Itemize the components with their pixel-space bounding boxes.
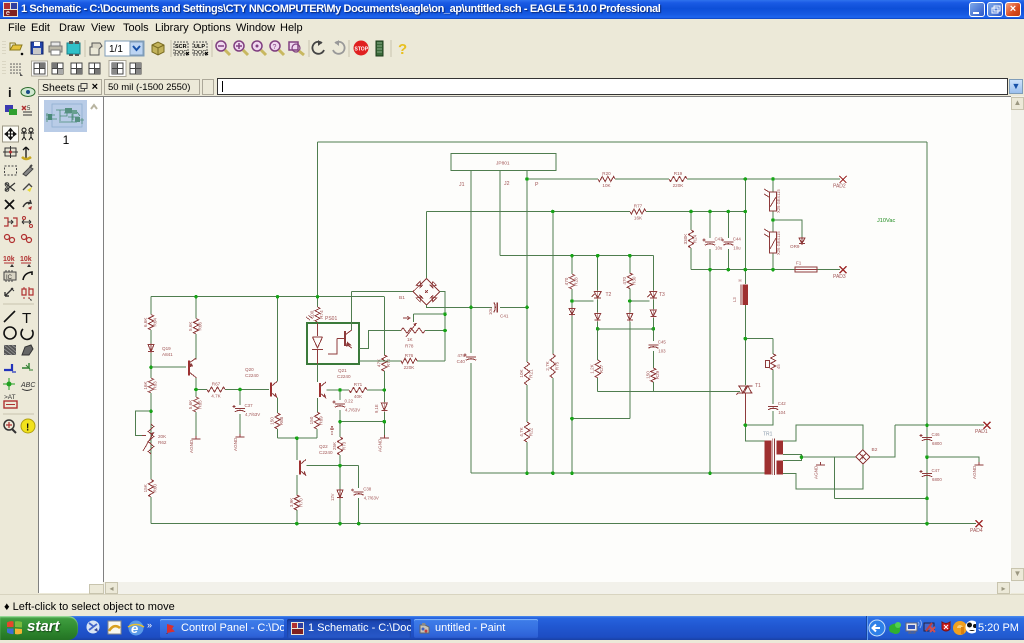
wire TR1 center tap a: [783, 454, 802, 460]
wire x316 drop: [317, 297, 319, 307]
wire y210 rail right: [646, 211, 745, 213]
junction at 727.3,268.6: [727, 268, 731, 272]
thyristor T3: [647, 291, 657, 300]
wire x339 col a: [339, 390, 341, 400]
svg-text:JP801: JP801: [496, 161, 510, 167]
capacitor C47: [920, 468, 943, 482]
junction at 709,210.5: [708, 210, 712, 214]
svg-text:i: i: [8, 85, 12, 100]
label R25 pack: [766, 361, 782, 370]
vertical scrollbar: [1011, 96, 1024, 593]
junction at 195,388.5: [194, 388, 198, 392]
wire T1 gate rail: [598, 391, 740, 393]
wire bridge top feed: [426, 212, 428, 279]
wire C44 column lower: [727, 249, 729, 270]
opto-triac U2: [764, 189, 781, 213]
wire snubber mid: [772, 370, 774, 404]
wire y360 to R76: [417, 360, 445, 362]
svg-text:IC: IC: [6, 275, 13, 281]
svg-text:R28: R28: [574, 277, 579, 286]
svg-text:C2240: C2240: [245, 373, 259, 378]
junction at 772,219: [771, 218, 775, 222]
svg-text:PAD1: PAD1: [975, 429, 988, 435]
capacitor C45: [648, 340, 666, 354]
svg-text:C2240: C2240: [319, 450, 333, 455]
wire x596 col d: [597, 378, 599, 392]
resistor R67: [207, 382, 225, 399]
wire Q22 collector line: [307, 465, 359, 467]
wire bus bridge to C41: [426, 305, 492, 307]
junction at 690,210.5: [689, 210, 693, 214]
wire C43 column upper: [709, 212, 711, 239]
LED inside optocoupler: [312, 323, 323, 364]
capacitor C44: [721, 237, 742, 251]
junction at 551.8,210.5: [551, 210, 555, 214]
svg-text:5.6K: 5.6K: [188, 399, 193, 409]
wire wiper stub: [413, 314, 415, 322]
svg-text:10K: 10K: [519, 368, 524, 377]
svg-text:4,7/63V: 4,7/63V: [245, 412, 260, 417]
wire R20 to R19: [615, 178, 669, 180]
svg-text:R74: R74: [319, 310, 324, 319]
junction at 772,178: [771, 177, 775, 181]
svg-text:Q20: Q20: [245, 367, 254, 372]
wire snubber bottom: [745, 411, 773, 425]
svg-text:4.7K: 4.7K: [211, 394, 221, 399]
pad PAD1: [975, 422, 991, 435]
ground AGND q19: [189, 436, 201, 453]
wire P to R20: [527, 178, 598, 180]
wire x150 b: [150, 330, 152, 344]
left tool palette: [0, 78, 37, 594]
junction at 195,295.7: [194, 295, 198, 299]
optocoupler PS2501 box: [307, 323, 359, 364]
wire Q20 collector up: [277, 297, 279, 382]
junction at 339,389: [338, 388, 342, 392]
svg-text:12V: 12V: [330, 493, 335, 501]
wire left vertical of loop: [317, 142, 319, 297]
svg-text:10u: 10u: [488, 307, 493, 315]
svg-text:6800: 6800: [932, 477, 942, 482]
svg-text:>AT: >AT: [4, 394, 16, 401]
wire opto collector up: [351, 292, 353, 330]
svg-text:C41: C41: [500, 313, 509, 318]
svg-text:R29: R29: [655, 370, 660, 379]
junction at 470,306.3: [469, 306, 473, 310]
capacitor C43: [703, 237, 724, 251]
svg-text:R71: R71: [354, 382, 363, 387]
junction at 709,268.6: [708, 268, 712, 272]
wire R21 col a: [526, 307, 528, 362]
svg-text:R65: R65: [198, 400, 203, 409]
svg-text:C40: C40: [457, 359, 466, 364]
junction at 709,472.2: [708, 471, 712, 475]
ground AGND c37: [233, 434, 245, 451]
svg-text:T: T: [22, 310, 31, 327]
diode OR9: [799, 237, 805, 245]
svg-text:R73: R73: [342, 441, 347, 450]
horizontal scrollbar: [104, 582, 1011, 594]
wire x383 down a: [383, 297, 385, 355]
svg-text:Q19: Q19: [162, 346, 171, 351]
transistor Q21: [320, 382, 326, 398]
resistor R68: [270, 413, 285, 429]
svg-text:10k: 10k: [20, 256, 32, 263]
svg-text:Q21: Q21: [338, 368, 347, 373]
wire x383 down d: [383, 412, 385, 435]
wire C37 to gnd: [239, 414, 241, 434]
wire snubber top: [745, 338, 773, 340]
resistor R70: [289, 495, 304, 510]
svg-text:A841: A841: [162, 352, 173, 357]
wire x833 drop: [834, 457, 836, 498]
junction at 727.3,210.5: [727, 210, 731, 214]
svg-text:C47: C47: [932, 468, 941, 473]
resistor R60: [143, 480, 158, 498]
svg-text:AGND: AGND: [814, 465, 819, 479]
resistor R20: [598, 171, 615, 188]
svg-text:TR1: TR1: [763, 432, 773, 438]
svg-text:R22: R22: [529, 427, 534, 436]
svg-text:220K: 220K: [404, 365, 416, 370]
wire T1 down: [744, 393, 746, 425]
wire x744 vertical from pad rail: [744, 179, 746, 284]
junction at 628.8,300: [628, 299, 632, 303]
wire x571 col a: [571, 256, 573, 274]
svg-text:330K: 330K: [683, 233, 688, 245]
svg-text:5.6K: 5.6K: [188, 321, 193, 331]
wire x571 col c: [571, 316, 573, 419]
svg-text:C37: C37: [245, 403, 254, 408]
svg-text:3.9K: 3.9K: [289, 497, 294, 507]
resistor R21: [519, 362, 534, 385]
wire x628 col a: [629, 256, 631, 273]
svg-text:X25 GE4115: X25 GE4115: [776, 189, 781, 213]
junction at 772,268.6: [771, 268, 775, 272]
svg-text:4,7/63V: 4,7/63V: [345, 408, 360, 413]
wire x383 down c: [383, 390, 385, 402]
svg-text:B2: B2: [872, 447, 878, 453]
wire y417 link: [572, 418, 630, 420]
wire B2 right out: [870, 425, 895, 457]
svg-text:L3: L3: [732, 297, 737, 302]
canvas with schematic: [103, 96, 1011, 582]
wire Q21 base right a: [327, 389, 350, 391]
svg-text:15K: 15K: [143, 483, 148, 492]
wire x150 d: [150, 393, 152, 480]
junction at 526,472.2: [525, 471, 529, 475]
wire Q21 emitter down: [317, 398, 319, 412]
wire y388 base line a: [196, 389, 207, 391]
svg-text:e: e: [6, 10, 10, 17]
title bar: [0, 0, 1024, 19]
wire x339 col e: [339, 499, 341, 524]
svg-text:R30: R30: [631, 276, 636, 285]
svg-text:AGND: AGND: [233, 437, 238, 451]
wire agnd branch right: [927, 457, 979, 462]
ground AGND right: [972, 462, 984, 479]
wire x571 lower: [571, 419, 573, 474]
svg-text:Q22: Q22: [319, 444, 328, 449]
wire optotriac column top: [772, 179, 774, 192]
taskbar: [0, 616, 1024, 640]
svg-text:R78: R78: [405, 344, 414, 349]
svg-text:150: 150: [309, 416, 314, 424]
wire bottom bus: [151, 523, 976, 525]
pad PAD3: [833, 266, 847, 280]
junction at 383.3,420.7: [383, 420, 387, 424]
svg-text:10u: 10u: [733, 246, 741, 251]
wire R68 to rail: [277, 429, 279, 438]
junction at 526,178: [525, 177, 529, 181]
diode D21: [569, 308, 575, 317]
wire y437 rail: [278, 437, 317, 439]
menu bar: [0, 19, 1024, 37]
diode D22: [595, 313, 601, 322]
resistor R25: [771, 354, 776, 370]
wire x628 col c: [629, 322, 631, 419]
wire optotriac column mid: [772, 211, 774, 232]
wire C44 column upper: [727, 212, 729, 239]
junction at 800.5,456.1: [800, 455, 804, 459]
svg-text:C43: C43: [715, 237, 724, 242]
wire x652 col c: [652, 318, 654, 341]
resistor R66: [188, 319, 203, 335]
junction at 526,306.3: [525, 306, 529, 310]
zener D17: [337, 489, 343, 499]
transistor Q22: [300, 460, 306, 476]
wire C38 col a: [358, 466, 360, 488]
resistor R24: [683, 230, 698, 248]
wire x150 a: [150, 297, 152, 315]
svg-text:ABC: ABC: [20, 382, 36, 389]
toolbar row 2: [0, 60, 1024, 78]
junction at 295.8,522.6: [295, 522, 299, 526]
opto-triac U3: [764, 229, 781, 255]
wire y327 link: [598, 328, 654, 330]
svg-text:OR9: OR9: [790, 244, 800, 249]
wire Q21 base right b: [367, 389, 384, 391]
svg-text:R63: R63: [153, 381, 158, 390]
wire bus C41 to P: [500, 306, 529, 308]
resistor R29: [645, 368, 660, 382]
svg-text:B1: B1: [399, 295, 405, 301]
wire x195 d: [195, 412, 197, 436]
wire box pin down: [317, 364, 319, 382]
LED arrows at optocoupler: [306, 316, 313, 321]
capacitor C39: [333, 399, 361, 413]
junction at 926,424.2: [925, 423, 929, 427]
resistor R77: [630, 204, 646, 221]
wire x652 col e: [652, 382, 654, 392]
resistor R30: [622, 273, 637, 289]
svg-text:9,1E: 9,1E: [374, 404, 379, 413]
inductor L3: [732, 278, 748, 305]
wire x571 col b: [571, 289, 573, 308]
wire snubber R col: [772, 339, 774, 354]
svg-text:47u: 47u: [457, 353, 465, 358]
row 3: [0, 78, 1024, 96]
svg-text:2.7K: 2.7K: [545, 360, 550, 370]
diode D19: [148, 344, 154, 354]
wire x652 col a: [652, 256, 654, 291]
svg-text:R68: R68: [279, 416, 284, 425]
svg-text:R27: R27: [599, 364, 604, 373]
connector JP801 box: [451, 154, 556, 171]
wire x652 col d: [652, 351, 654, 368]
wire C37 drop: [239, 390, 241, 406]
svg-text:STOP: STOP: [355, 47, 369, 53]
wire TR1 sec bottom out: [783, 463, 863, 489]
svg-text:R21: R21: [529, 369, 534, 378]
diode D24: [650, 309, 656, 318]
svg-text:1.2K: 1.2K: [590, 363, 595, 373]
trimmer arrow R73: [330, 426, 334, 435]
junction at 926,497.4: [925, 497, 929, 501]
wire J2 pin vertical: [499, 171, 501, 256]
wire y420 link: [340, 421, 384, 423]
wire y210 rail left: [427, 211, 630, 213]
svg-text:40K: 40K: [354, 394, 363, 399]
thyristor T2: [592, 291, 602, 300]
svg-text:C2240: C2240: [337, 374, 351, 379]
svg-text:6800: 6800: [932, 441, 942, 446]
junction at 339,420.7: [338, 420, 342, 424]
svg-text:?: ?: [398, 41, 407, 58]
wire Q22 base drop: [296, 438, 298, 460]
svg-text:J1: J1: [459, 182, 465, 188]
svg-text:10k: 10k: [3, 256, 15, 263]
wire y388 base line b: [225, 389, 269, 391]
junction at 444,329.5: [443, 329, 447, 333]
svg-text:F1: F1: [796, 261, 802, 266]
junction at 744.3,337.7: [744, 337, 748, 341]
junction at 628.8,254.7: [628, 254, 632, 258]
capacitor C37: [233, 403, 261, 417]
junction at 316.5,295.7: [316, 295, 320, 299]
wire c47 above: [926, 457, 928, 469]
toolbar row 1: [0, 37, 1024, 61]
wire J1 pin vertical: [470, 171, 472, 308]
svg-text:10K: 10K: [602, 183, 611, 188]
wire right border vertical: [926, 142, 928, 524]
svg-text:R66: R66: [198, 322, 203, 331]
fuse F1: [795, 261, 817, 273]
triac T1: [737, 386, 753, 395]
wire R75 col a: [552, 212, 554, 355]
svg-text:C42: C42: [778, 401, 787, 406]
transistor Q20: [271, 382, 277, 398]
svg-text:R62: R62: [158, 440, 167, 445]
wire bridge wiper link: [414, 313, 446, 315]
wire y296 bus: [151, 296, 384, 298]
svg-text:6.6K: 6.6K: [143, 317, 148, 327]
wire opto to bridge: [352, 291, 414, 293]
junction at 339,522.6: [338, 522, 342, 526]
svg-text:25K: 25K: [332, 441, 337, 450]
svg-text:0.22: 0.22: [345, 399, 354, 404]
wire x339 col d: [339, 466, 341, 489]
resistor R61: [143, 315, 158, 331]
potentiometer R78: [401, 316, 425, 349]
capacitor C38: [351, 487, 379, 501]
junction at 596.7,327.8: [596, 327, 600, 331]
transistor Q19: [162, 346, 196, 378]
junction at 744.3,178: [744, 177, 748, 181]
pad PAD2: [833, 176, 847, 190]
wire R24 column lower: [690, 248, 692, 270]
junction at 239,388.5: [238, 388, 242, 392]
wire T2 gate feed: [572, 300, 594, 302]
svg-text:470: 470: [622, 276, 627, 284]
wire x339 col b: [339, 410, 341, 437]
wire center tap to B2: [821, 456, 856, 458]
svg-text:4,7/63V: 4,7/63V: [364, 496, 379, 501]
junction at 571,472.2: [570, 471, 574, 475]
resistor R76: [401, 353, 417, 370]
resistor R73: [332, 437, 347, 455]
junction at 744.3,210.5: [744, 210, 748, 214]
wire OR9 branch: [773, 220, 802, 237]
junction at 295.8,437.2: [295, 436, 299, 440]
wire R78 right link: [425, 330, 445, 332]
junction at 357.7,522.6: [357, 522, 361, 526]
wire R70 to bus: [296, 510, 298, 524]
potentiometer R62: [142, 424, 167, 454]
wire C38 col b: [358, 498, 360, 524]
wire x150 c: [150, 353, 152, 378]
svg-text:»: »: [147, 620, 152, 630]
svg-text:T3: T3: [659, 292, 665, 298]
wire x383 down b: [383, 371, 385, 390]
wire P pin vertical: [526, 171, 528, 308]
bridge rectifier B2: [856, 447, 878, 464]
resistor R19: [669, 171, 687, 188]
resistor R65: [188, 397, 203, 412]
svg-text:X26 GE4115: X26 GE4115: [776, 231, 781, 255]
junction at 571,254.7: [570, 254, 574, 258]
svg-text:C44: C44: [733, 237, 742, 242]
junction at 276.5,295.7: [276, 295, 280, 299]
wire R21 col b: [526, 385, 528, 422]
transformer TR1: [763, 432, 783, 476]
svg-text:10u: 10u: [715, 246, 723, 251]
phototransistor inside optocoupler: [328, 330, 352, 354]
status bar: [0, 594, 1024, 617]
wire R76 to box: [359, 360, 401, 362]
wire R19 to PAD2: [687, 178, 840, 180]
svg-text:150: 150: [645, 371, 650, 379]
capacitor C40: [457, 353, 476, 364]
wire R69 to rail: [316, 429, 318, 438]
svg-text:R72: R72: [386, 358, 391, 367]
wire c46 below: [926, 444, 928, 458]
svg-text:AGND: AGND: [377, 438, 382, 452]
junction at 744.3,268.6: [744, 268, 748, 272]
svg-text:PAD3: PAD3: [833, 274, 846, 280]
svg-text:H: H: [739, 278, 742, 283]
svg-text:104: 104: [778, 410, 786, 415]
svg-text:R67: R67: [212, 382, 221, 387]
ground AGND tr1: [814, 462, 826, 479]
ground AGND main: [377, 435, 389, 452]
svg-text:?: ?: [273, 44, 277, 51]
wire TR1 center tap out: [802, 456, 822, 458]
junction at 383.3,389: [383, 388, 387, 392]
svg-text:PAD2: PAD2: [833, 184, 846, 190]
svg-text:DOC: DOC: [175, 50, 187, 56]
wire y424 PAD1 line: [895, 424, 984, 426]
